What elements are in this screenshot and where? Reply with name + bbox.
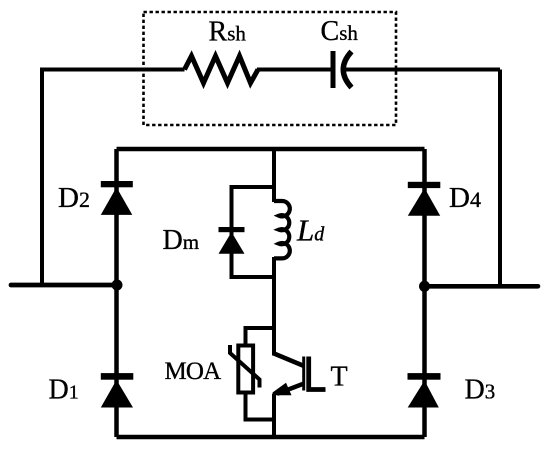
wire: Dm loop left: [230, 185, 234, 279]
wire: bridge right rail: [422, 149, 427, 437]
transistor T (IGBT) emitter lead: [277, 384, 304, 394]
svg-text:Ld: Ld: [296, 213, 325, 248]
svg-text:Rsh: Rsh: [209, 17, 247, 48]
capacitor Csh curved plate: [343, 52, 351, 88]
diode D3: [408, 373, 441, 407]
svg-text:D1: D1: [49, 375, 79, 406]
wire: center branch bottom (emitter to bridge bottom): [272, 394, 276, 438]
diode D2: [101, 181, 133, 215]
wire: MOA loop bottom: [246, 418, 275, 422]
wire: bridge top: [117, 147, 425, 152]
wire: center branch middle (inductor to collector): [272, 257, 276, 356]
wire: capacitor to right vertical: [345, 68, 501, 72]
wire: right vertical from top snubber wire down to right input: [498, 70, 502, 287]
wire: MOA loop top: [246, 326, 275, 330]
wire: right AC output: [425, 284, 539, 289]
svg-text:D3: D3: [465, 375, 496, 406]
node: right AC junction: [419, 281, 430, 292]
diode D1: [101, 373, 134, 407]
wire: left AC input: [11, 283, 117, 288]
transistor T (IGBT) emitter arrow: [273, 383, 292, 396]
snubber dashed box: [144, 12, 397, 125]
svg-text:D4: D4: [449, 182, 481, 214]
wire: MOA loop top-left vertical: [244, 326, 248, 346]
resistor Rsh: [185, 56, 259, 83]
wire: left vertical from input to top snubber wire: [40, 70, 44, 286]
wire: resistor to capacitor: [257, 68, 332, 72]
transistor T (IGBT) collector lead: [274, 354, 304, 367]
svg-text:Dm: Dm: [163, 225, 200, 256]
varistor MOA body: [238, 346, 253, 393]
svg-text:MOA: MOA: [165, 358, 222, 385]
svg-text:D2: D2: [58, 182, 90, 214]
capacitor Csh left plate: [331, 51, 336, 88]
wire: top snubber wire left segment: [40, 68, 185, 72]
diode D4: [408, 182, 441, 216]
svg-text:Csh: Csh: [321, 16, 359, 47]
wire: bridge left rail: [114, 149, 119, 437]
transistor T (IGBT) body bar: [302, 357, 305, 391]
wire: Dm loop bottom: [232, 275, 275, 279]
wire: MOA loop bottom-left vertical: [244, 393, 248, 422]
wire: Dm loop top: [232, 185, 275, 189]
wire: center branch top (bridge top to inductor): [272, 149, 276, 202]
svg-text:T: T: [331, 362, 348, 393]
wire: bridge bottom: [117, 435, 425, 440]
varistor MOA diagonal stroke: [230, 345, 260, 388]
transistor T (IGBT) gate bar and lead: [309, 357, 326, 390]
diode Dm (freewheeling): [219, 227, 245, 254]
node: left AC junction: [112, 280, 123, 291]
inductor Ld: [274, 201, 290, 258]
